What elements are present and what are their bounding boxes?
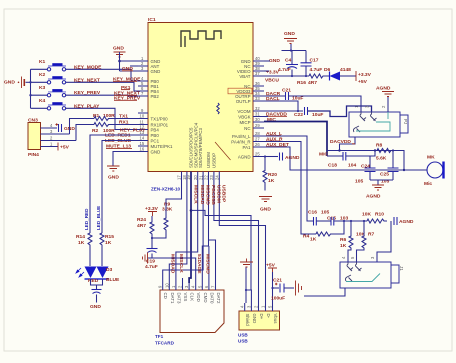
TF1 pin numbers — [158, 283, 216, 288]
svg-text:R14: R14 — [76, 234, 85, 240]
svg-text:NC: NC — [244, 126, 250, 131]
svg-text:GND: GND — [90, 304, 101, 310]
svg-text:CMD: CMD — [203, 293, 208, 303]
svg-text:29: 29 — [255, 123, 260, 128]
wire pin37 rail to R16 — [264, 75, 309, 77]
svg-text:GND: GND — [151, 69, 161, 74]
wire USBDP to USB D- — [219, 182, 265, 304]
svg-text:MISDAD: MISDAD — [199, 185, 205, 205]
svg-text:1K: 1K — [78, 240, 85, 246]
svg-text:PC1: PC1 — [151, 138, 160, 143]
resistor R16 4R7 — [297, 74, 329, 86]
wire ANT stub — [130, 65, 138, 67]
svg-text:AGND: AGND — [238, 154, 251, 159]
capacitor C15 103 — [327, 216, 348, 226]
IC1 left pin numbers — [140, 56, 145, 152]
power +3.3V above R24 — [145, 206, 159, 216]
svg-text:D3: D3 — [106, 267, 113, 273]
IC1 part number label — [151, 187, 181, 192]
svg-text:10: 10 — [164, 283, 169, 288]
svg-text:PB2: PB2 — [151, 94, 160, 99]
svg-text:USBDP: USBDP — [221, 185, 227, 203]
svg-text:PBCE5B: PBCE5B — [210, 185, 216, 205]
svg-text:+5V: +5V — [60, 145, 70, 151]
svg-text:C16: C16 — [308, 210, 317, 216]
wire DACVDD pin31 stub — [264, 116, 268, 118]
net label LED_RED rotated — [84, 208, 89, 230]
svg-text:MISCLK: MISCLK — [193, 185, 199, 204]
capacitor C22 10uF on DACL — [294, 107, 323, 118]
svg-text:33: 33 — [255, 96, 260, 101]
IC1 right pin stubs — [253, 61, 264, 157]
wire C22 to jack PJ pin — [308, 106, 372, 117]
svg-text:MISCMD: MISCMD — [205, 185, 211, 205]
net label KEY_NEXT at K2 — [74, 77, 100, 83]
svg-text:PA1: PA1 — [243, 145, 252, 150]
net label 51DAGE at TF rotated — [196, 254, 202, 274]
LED D2 RED — [76, 267, 99, 285]
svg-text:VSS: VSS — [183, 293, 188, 302]
net label MISCLK at TF rotated — [178, 254, 184, 273]
svg-text:USBDM: USBDM — [206, 152, 211, 168]
svg-text:28: 28 — [255, 131, 260, 136]
wire LED_BLUE column — [101, 146, 103, 233]
svg-text:19: 19 — [186, 175, 191, 180]
wire DACL down to VCOM row — [264, 101, 298, 111]
net label VBCU at IC pin37 — [265, 78, 279, 84]
svg-text:LED_BLUE: LED_BLUE — [96, 206, 101, 230]
USB pin numbers — [240, 305, 273, 308]
svg-text:K3: K3 — [39, 85, 46, 91]
wire K3 to IC pin6 — [66, 94, 138, 97]
resistor R8 5.6K — [375, 143, 394, 162]
capacitor C4 4.7uF — [278, 51, 298, 77]
svg-text:R20: R20 — [268, 172, 277, 178]
LED D3 BLUE — [97, 267, 121, 284]
wire K2 to IC pin5 — [66, 82, 138, 91]
capacitor to AGND right of R10 — [394, 217, 414, 225]
svg-text:105: 105 — [381, 179, 389, 185]
pushbutton K4 — [39, 98, 66, 110]
IC1 right inside pin names — [231, 59, 251, 160]
net label RX1 — [119, 119, 129, 125]
svg-text:LED_RED1: LED_RED1 — [105, 133, 131, 139]
ground below LEDs — [90, 290, 102, 311]
svg-text:AGND: AGND — [366, 194, 381, 200]
net label GND at IC pin40 — [264, 58, 280, 64]
svg-text:R15: R15 — [105, 234, 114, 240]
wire AUX_R down to R4 row — [264, 142, 316, 235]
svg-text:GND: GND — [284, 31, 295, 37]
svg-text:MISDAD: MISDAD — [169, 254, 175, 274]
svg-text:PA4/IN_R: PA4/IN_R — [231, 139, 250, 144]
svg-text:17: 17 — [177, 175, 182, 180]
svg-text:10K: 10K — [362, 212, 371, 218]
capacitor C21 100uF — [271, 278, 294, 302]
svg-text:RX1: RX1 — [119, 119, 129, 125]
VDD33 highlight box inside IC — [228, 88, 252, 94]
svg-text:R4: R4 — [303, 234, 310, 240]
capacitor C18 104 — [328, 152, 356, 169]
svg-text:PB4: PB4 — [151, 127, 160, 132]
ground sideways at C19 — [143, 253, 153, 264]
net label TX1 — [119, 113, 128, 119]
wire C18 to R8 node — [346, 151, 375, 157]
resistor R2 100R — [92, 123, 115, 135]
svg-text:TFCARD: TFCARD — [155, 340, 175, 345]
net label MISCMD rotated — [205, 185, 211, 205]
svg-text:VBAT: VBAT — [239, 74, 250, 79]
net label MISCMD at TF rotated — [204, 254, 210, 274]
resistor R4 1K — [303, 232, 333, 243]
svg-text:DAT2: DAT2 — [216, 293, 221, 304]
resistor R10 10K — [362, 212, 387, 224]
svg-text:GND: GND — [113, 46, 124, 52]
ground GND far left of keys — [4, 77, 31, 89]
wire jack PJ sleeve to mic row — [340, 137, 356, 151]
svg-text:10: 10 — [140, 114, 145, 119]
power ports +3.3V +5V right of D6 — [356, 71, 372, 85]
svg-text:GND: GND — [4, 80, 15, 86]
wire R8 to microphone — [393, 151, 405, 172]
svg-text:31: 31 — [255, 112, 260, 117]
capacitor C17 4.7uF — [301, 51, 323, 77]
svg-text:USBDP: USBDP — [211, 153, 216, 168]
wire K4 to IC pin12 — [66, 108, 138, 129]
power +5V at CN3 pin1 — [58, 143, 70, 151]
svg-text:VBGK: VBGK — [238, 114, 250, 119]
diode D6 4148 — [324, 67, 356, 81]
svg-text:C24: C24 — [361, 164, 370, 170]
svg-text:VDD: VDD — [196, 293, 201, 302]
svg-text:USBDM: USBDM — [215, 185, 221, 203]
svg-text:16: 16 — [140, 147, 145, 152]
microphone MK — [404, 155, 444, 188]
svg-text:USB: USB — [238, 333, 248, 338]
svg-text:15: 15 — [140, 141, 145, 146]
net label +3.3V at IC pin38 — [264, 69, 280, 75]
svg-text:VCOM: VCOM — [237, 109, 251, 114]
svg-text:CD: CD — [163, 293, 168, 299]
capacitor at CN3 pin4 — [56, 123, 76, 132]
power +5V above C21 — [266, 263, 277, 273]
svg-text:MISCMD: MISCMD — [204, 254, 210, 274]
wire K1 to IC pin4 — [66, 69, 138, 81]
IC IC1 designator — [148, 17, 156, 23]
svg-text:BLUE: BLUE — [106, 277, 120, 283]
net label MUTE_L13 — [106, 144, 132, 150]
wire CLK branch to USB ground rail — [191, 210, 251, 290]
IC IC1 body — [148, 23, 253, 172]
capacitor C21 10uF on DACR — [264, 88, 303, 102]
wire key common bus — [29, 69, 47, 108]
svg-text:R16: R16 — [297, 80, 306, 86]
USB pin stubs — [245, 303, 273, 311]
svg-text:CLK: CLK — [190, 293, 195, 302]
svg-text:TX1: TX1 — [119, 113, 128, 119]
headphone jack PJ body — [349, 112, 408, 137]
headphone jack PJ contacts — [353, 112, 390, 132]
svg-text:R7: R7 — [368, 232, 375, 238]
resistor R9 3.3K — [152, 202, 173, 239]
svg-text:GND: GND — [252, 314, 257, 324]
svg-text:14: 14 — [140, 136, 145, 141]
svg-text:5.6K: 5.6K — [376, 156, 387, 162]
IC1 left pin stubs — [138, 61, 148, 152]
svg-text:DAT3: DAT3 — [176, 293, 181, 304]
svg-text:4.7uF: 4.7uF — [278, 67, 291, 73]
net label DACVDD at jack — [330, 139, 355, 145]
resistor R1 100R — [93, 113, 115, 121]
svg-text:21: 21 — [198, 175, 203, 180]
wire J1 bottom pin to ground rail — [304, 288, 345, 296]
wire TF VDD to 3.3V node — [152, 258, 196, 283]
IC1 left inside pin names — [151, 59, 174, 155]
aux jack J1 contacts — [345, 262, 380, 282]
wire R2 to IC pin11 RX1 — [110, 124, 139, 126]
svg-text:51DAGE: 51DAGE — [196, 254, 202, 274]
svg-text:37: 37 — [255, 71, 260, 76]
net label LED_BLUB — [105, 138, 132, 144]
USB connector body — [238, 311, 280, 344]
svg-text:PA4/IN_L: PA4/IN_L — [232, 134, 251, 139]
svg-text:105: 105 — [355, 179, 363, 185]
IC1 bottom pin stubs — [182, 172, 220, 182]
aux jack J1 pin numbers — [341, 256, 375, 259]
net label KEY_MODE at IC pin4 — [113, 77, 141, 83]
svg-text:K4: K4 — [39, 98, 46, 104]
net label PBCE5B rotated — [210, 185, 216, 205]
wire LED cathodes common — [91, 279, 103, 290]
ground above USB shield — [240, 259, 253, 304]
svg-text:PJ: PJ — [403, 119, 408, 124]
svg-text:23: 23 — [209, 175, 214, 180]
svg-text:1K: 1K — [310, 237, 317, 243]
svg-text:GND: GND — [260, 207, 271, 213]
wire IC pin13 to LED_RED column — [90, 135, 138, 146]
svg-text:20: 20 — [193, 175, 198, 180]
svg-text:MICP: MICP — [240, 120, 251, 125]
svg-text:Shield: Shield — [245, 314, 250, 327]
wire +5V to USB Vbus — [271, 272, 273, 303]
svg-text:IC1: IC1 — [148, 17, 156, 23]
resistor R15 1K — [100, 233, 114, 266]
svg-text:DAT1: DAT1 — [170, 293, 175, 304]
resistor R7 10K — [356, 221, 375, 262]
svg-text:R2: R2 — [92, 128, 99, 134]
svg-text:4.7uF: 4.7uF — [145, 264, 158, 270]
svg-text:C21: C21 — [282, 88, 291, 94]
TF card connector TF1 body — [155, 290, 224, 345]
net label KEY_PLAY at IC pin12 — [120, 128, 146, 134]
wire J1 sleeve to aux AGND node — [377, 221, 391, 262]
capacitor C24 105 — [355, 156, 376, 185]
wire C15 to R10 with junctions — [334, 220, 367, 222]
wire USB GND jog — [246, 290, 251, 303]
svg-text:R6: R6 — [340, 237, 347, 243]
net label KEY_PREV at K3 — [74, 90, 101, 96]
net label LED_RED1 — [105, 133, 131, 139]
svg-text:+5V: +5V — [358, 79, 368, 85]
resistor R14 1K — [76, 233, 92, 266]
wire IC pin22 to TF CMD — [202, 182, 208, 284]
svg-text:VBCU: VBCU — [265, 78, 279, 84]
resistor R20 below pin25 — [263, 157, 277, 191]
svg-text:C21: C21 — [273, 278, 282, 284]
svg-text:MK: MK — [427, 155, 435, 161]
svg-text:1K: 1K — [268, 178, 275, 184]
wire IC pin19 CLK to TF (thick) — [189, 182, 192, 284]
svg-text:4R7: 4R7 — [308, 80, 317, 86]
svg-text:R8: R8 — [376, 143, 383, 149]
svg-text:KEY_PLAY: KEY_PLAY — [120, 128, 146, 134]
wire decoupling top rail — [282, 49, 307, 51]
wire IC pin14 to LED_BLUE column — [102, 141, 138, 147]
net label AUX_L at IC pin28 — [266, 131, 282, 137]
svg-text:USB: USB — [238, 339, 248, 344]
svg-text:GND: GND — [151, 149, 161, 154]
svg-text:32: 32 — [255, 106, 260, 111]
svg-text:AGND: AGND — [399, 219, 414, 225]
wire MIC trunk (thick) — [264, 122, 327, 157]
net label MIC at IC pin30 — [267, 117, 276, 123]
svg-text:4148: 4148 — [340, 67, 351, 73]
svg-text:D-: D- — [266, 314, 271, 319]
net label KEY_NEXT at IC pin6 — [114, 91, 140, 97]
internal resistor symbol inside IC near VBGK — [217, 103, 219, 114]
svg-text:SDI/DAT8/PEM/PC3: SDI/DAT8/PEM/PC3 — [198, 128, 203, 168]
aux jack J1 body — [340, 262, 404, 288]
wire AUX_DET down to mic line — [264, 147, 404, 170]
headphone jack PJ pin stubs — [354, 104, 386, 112]
wire LED_RED column — [89, 146, 91, 233]
svg-text:C18: C18 — [328, 163, 337, 169]
svg-text:K1: K1 — [39, 59, 46, 65]
wire C16 to C15 — [316, 220, 331, 222]
capacitor C25 105 — [380, 151, 399, 185]
svg-text:+3.3V: +3.3V — [358, 72, 372, 78]
ground AGND below C24 C25 — [366, 185, 384, 200]
wire IC pin20 to TF DAT3 — [176, 182, 198, 284]
svg-text:MISCLK: MISCLK — [178, 254, 184, 273]
net label USBDM rotated — [215, 185, 221, 203]
svg-text:4R7: 4R7 — [137, 223, 146, 229]
svg-text:Vbus: Vbus — [273, 314, 278, 325]
net label KEY_MODE at K1 — [74, 64, 102, 70]
svg-text:105: 105 — [321, 210, 329, 216]
ground GND above IC pins 1-3 — [113, 46, 138, 72]
wire DACR to jack PJ pin — [289, 96, 362, 104]
svg-text:4.7uF: 4.7uF — [310, 67, 323, 73]
wire IC pin17 to R9 — [166, 182, 182, 213]
net label MISDAD at TF rotated — [169, 254, 175, 274]
net label DACL at IC pin33 — [266, 96, 280, 102]
svg-text:PIN4: PIN4 — [28, 152, 39, 158]
svg-text:K2: K2 — [39, 72, 46, 78]
svg-text:+3.3V: +3.3V — [145, 206, 159, 212]
ground GND below R20 — [259, 197, 272, 213]
IC1 right pin numbers — [255, 56, 260, 157]
capacitor to AGND at pin25 — [280, 153, 300, 162]
resistor R24 4R7 — [137, 216, 154, 239]
ground GND top right — [284, 31, 297, 51]
wire caps common to AGND — [370, 180, 393, 185]
wire mic row junctions — [327, 149, 393, 151]
ground sideways right of C21 — [296, 281, 302, 296]
svg-text:C4: C4 — [285, 58, 292, 64]
svg-text:LED_BLUB: LED_BLUB — [105, 138, 132, 144]
wire CN3 pin2 to R2 (RX1) — [76, 125, 94, 141]
svg-text:DACVDD: DACVDD — [330, 139, 351, 145]
svg-text:GND: GND — [108, 175, 119, 181]
net label LED_BLUE rotated — [96, 206, 101, 230]
svg-text:ZEN-XZH6-10: ZEN-XZH6-10 — [151, 187, 181, 192]
svg-text:MUTE/PK1: MUTE/PK1 — [151, 144, 174, 149]
net label USBDP rotated — [221, 185, 227, 203]
svg-text:22: 22 — [204, 175, 209, 180]
wire AUX_L down to aux row — [264, 136, 313, 221]
wire R4 to aux row — [333, 220, 346, 234]
svg-text:PB0: PB0 — [151, 133, 160, 138]
wire R1 to IC pin10 TX1 — [110, 118, 139, 120]
wire TF DAT2 riser — [209, 240, 216, 283]
wire IC pin21 to TF CD — [163, 182, 203, 284]
net label MISCLK rotated — [193, 185, 199, 204]
net label KEY_PLAY at K4 — [74, 103, 100, 109]
svg-text:LED_RED: LED_RED — [84, 208, 89, 230]
ground GND below IC pin16 — [107, 166, 120, 181]
net label MISDAD rotated — [199, 185, 205, 205]
svg-text:OUTLP: OUTLP — [236, 99, 251, 104]
wire USBDM to USB D+ — [214, 182, 259, 304]
capacitor C19 4.7uF — [145, 238, 158, 270]
wire TF DAT0 riser — [208, 246, 210, 283]
net label DACR at IC pin34 — [266, 91, 281, 97]
net label GND at IC pin3 — [122, 66, 133, 72]
svg-text:30: 30 — [255, 117, 260, 122]
IC1 bottom pin numbers — [177, 175, 220, 180]
net label AUX_R at IC pin27 — [266, 136, 283, 142]
svg-text:J1: J1 — [399, 266, 404, 271]
resistor R6 1K — [340, 221, 353, 262]
svg-text:3.3K: 3.3K — [162, 207, 173, 213]
svg-text:27: 27 — [255, 137, 260, 142]
connector CN3 — [28, 118, 76, 159]
svg-text:DAT0: DAT0 — [209, 293, 214, 304]
IC1 bottom inside rotated pin names — [189, 122, 231, 168]
wire IC pin32 row — [264, 110, 303, 112]
net label MIC at C18 — [319, 151, 343, 157]
net label AUX_DET at IC pin26 — [266, 142, 289, 148]
pushbutton K3 — [39, 85, 66, 97]
svg-text:TX1/P00: TX1/P00 — [151, 116, 169, 121]
svg-text:D+: D+ — [259, 314, 264, 320]
net label DACVDD at IC pin31 — [266, 112, 287, 118]
pushbutton K2 — [39, 72, 66, 84]
USB inside pin names rotated — [245, 314, 278, 327]
svg-text:AGND: AGND — [285, 155, 300, 161]
TF1 inside pin names rotated — [163, 293, 221, 304]
svg-text:+3.3V: +3.3V — [266, 69, 280, 75]
capacitor C16 105 — [308, 210, 329, 226]
svg-text:GND: GND — [269, 58, 280, 64]
svg-text:1K: 1K — [105, 240, 112, 246]
wire IC pin25 node — [264, 155, 278, 157]
net label PK1 at IC pin5 — [121, 85, 131, 91]
svg-text:10uF: 10uF — [312, 112, 323, 118]
svg-text:Mic: Mic — [424, 181, 432, 187]
wire CN3 pin3 to R1 (TX1) — [70, 119, 95, 135]
